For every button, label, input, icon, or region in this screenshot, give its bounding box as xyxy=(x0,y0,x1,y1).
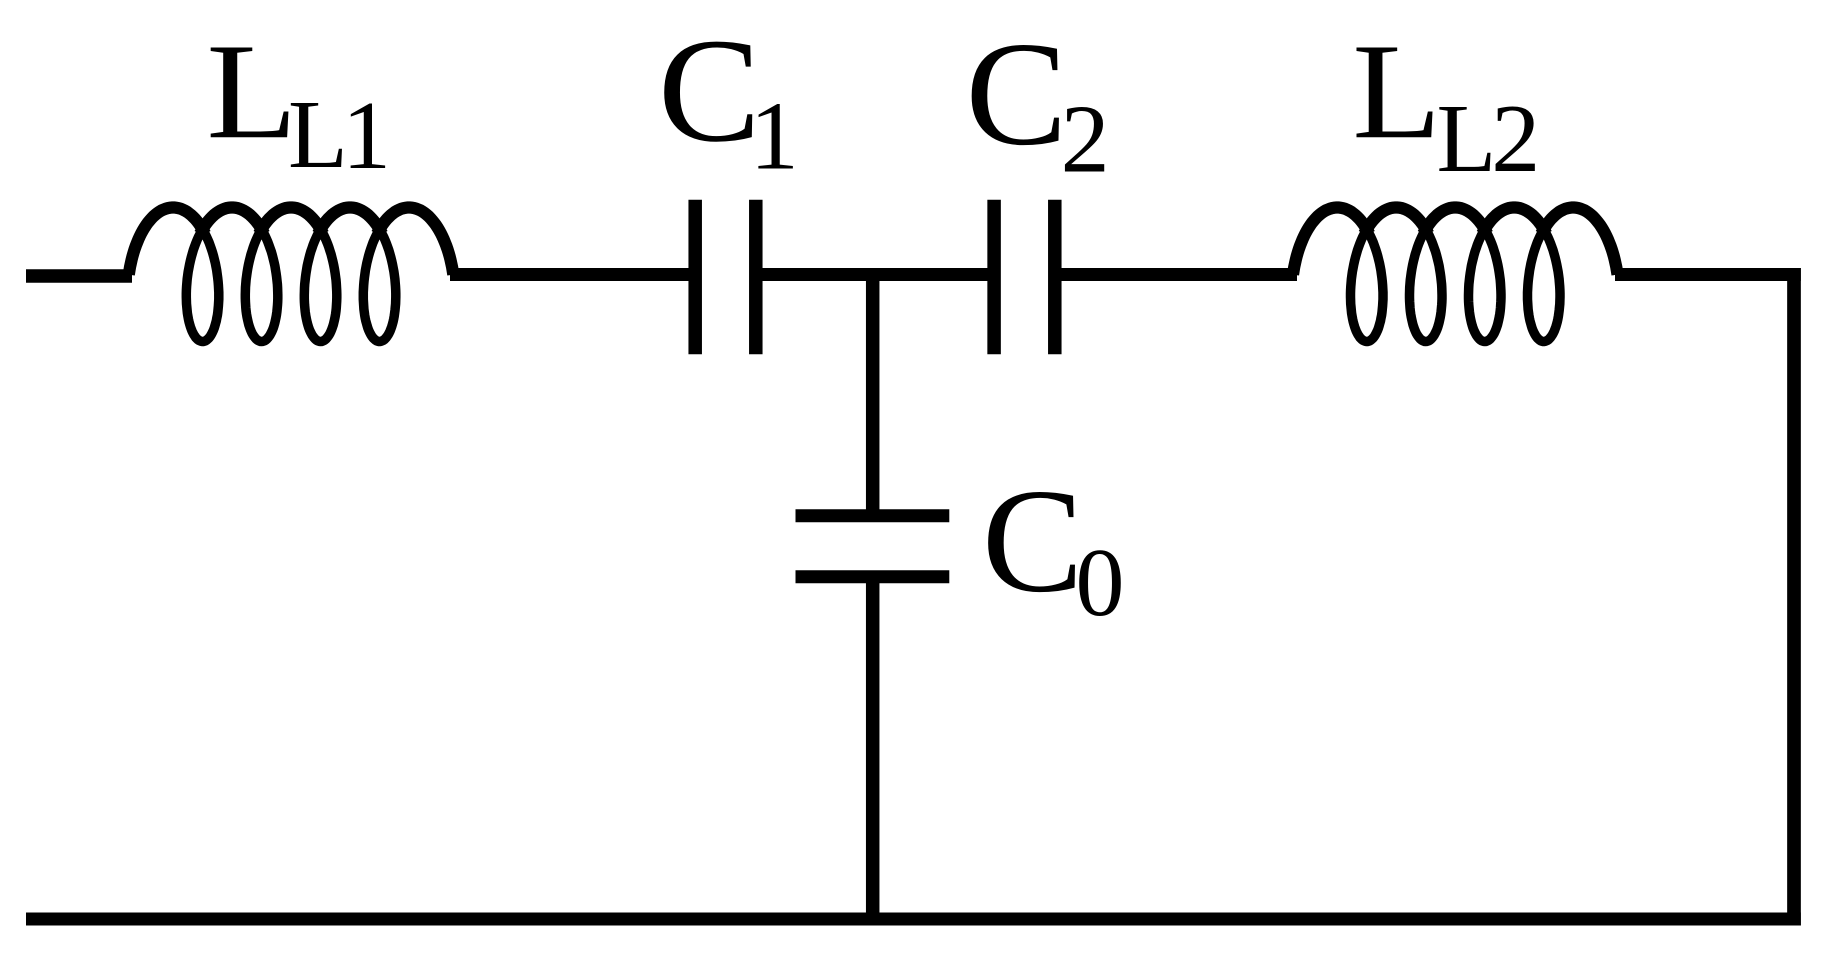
svg-text:C: C xyxy=(965,10,1067,176)
inductor L1 coil hump 4 (thick layer) xyxy=(318,208,382,234)
capacitor C0 bottom plate xyxy=(796,570,950,583)
svg-text:C: C xyxy=(982,458,1083,623)
inductor L2 coil hump 5 (thick layer) xyxy=(1541,208,1617,275)
svg-text:1: 1 xyxy=(342,82,391,190)
svg-text:L: L xyxy=(288,81,348,189)
capacitor C0 top plate xyxy=(796,509,950,522)
inductor L2 coil hump 1 (thick layer) xyxy=(1293,208,1369,275)
inductor L1 coil (thin loop layer) xyxy=(129,208,454,342)
wire: bottom rail xyxy=(26,913,1801,926)
node A: junction stub from top wire down to C0 xyxy=(866,275,880,511)
wire: right vertical xyxy=(1787,268,1801,926)
inductor L2 coil hump 2 (thick layer) xyxy=(1364,208,1428,234)
wire: L2 to top-right corner xyxy=(1615,268,1801,281)
svg-text:2: 2 xyxy=(1061,85,1110,193)
inductor L2 coil hump 4 (thick layer) xyxy=(1482,208,1546,234)
inductor L2 coil (thin loop layer) xyxy=(1293,208,1618,342)
capacitor C1 right plate xyxy=(749,200,763,355)
capacitor C2 left plate xyxy=(987,200,1001,355)
wire: L1 to C1 xyxy=(450,268,690,281)
svg-text:C: C xyxy=(658,8,761,173)
svg-text:L: L xyxy=(1352,15,1441,167)
wire: top-left stub into L1 xyxy=(26,269,132,283)
wire: C1 to C2 (through node) xyxy=(762,268,988,281)
svg-text:2: 2 xyxy=(1491,85,1540,193)
inductor L1 coil hump 2 (thick layer) xyxy=(200,208,264,234)
svg-text:L: L xyxy=(206,15,297,167)
svg-text:L: L xyxy=(1437,85,1497,193)
svg-text:1: 1 xyxy=(750,83,799,191)
inductor L1 coil hump 3 (thick layer) xyxy=(259,208,323,234)
capacitor C2 right plate xyxy=(1048,200,1062,355)
wire: C0 bottom plate down to bottom rail xyxy=(866,583,880,919)
inductor L1 coil hump 1 (thick layer) xyxy=(129,208,205,275)
inductor L2 coil hump 3 (thick layer) xyxy=(1423,208,1487,234)
svg-text:0: 0 xyxy=(1076,529,1125,637)
capacitor C1 left plate xyxy=(688,200,702,355)
wire: C2 to L2 xyxy=(1061,268,1297,281)
inductor L1 coil hump 5 (thick layer) xyxy=(377,208,453,275)
